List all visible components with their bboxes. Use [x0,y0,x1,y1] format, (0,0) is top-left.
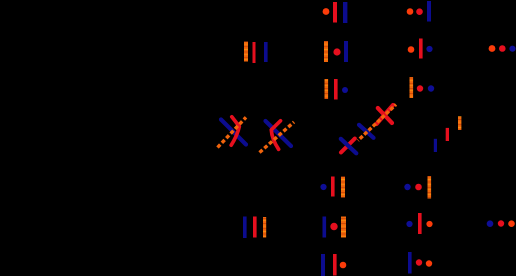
blue bar A3 (top group 1) [343,2,347,23]
blue bar W1 (row 7 group 2) [408,252,412,274]
red dot F2 (row 2 dot row) [499,45,506,52]
red bracket stroke J2 (cluster 2) [271,121,280,150]
red tick O2 (staircase) [446,128,449,141]
orange dashed diagonal J3 (cluster 2) [260,122,295,153]
blue diagonal stroke J1 (cluster 2) [266,121,292,146]
red bar P2 (row 5 group 1) [331,177,335,197]
orange dashed tick O3 (staircase) [458,116,461,130]
blue dot Q1 (row 5 group 2) [404,184,410,190]
orange dashed bar Q3 (row 5 group 2) [428,176,432,199]
red dot B2 (top group 2) [416,8,423,15]
red dot W2 (row 7 group 2) [416,259,422,265]
orange dashed bar S3 (row 6 group 2) [341,217,346,238]
blue dot H3 (row 3 group 2) [428,85,434,91]
red dot H2 (row 3 group 2) [417,85,423,91]
blue dot T1 (row 6 group 3) [406,221,412,227]
red dot D2 (row 2 group 2) [333,48,340,55]
orange dot U3 (row 6 dot row) [508,220,515,227]
blue bar B3 (top group 2) [427,1,431,22]
blue tick O1 (staircase) [434,139,437,152]
blue diagonal stroke L1 (cross 2) [359,125,374,138]
red bracket stroke I2 (cluster 1) [231,117,239,145]
red dot Q2 (row 5 group 2) [415,184,422,191]
blue bar V1 (row 7 group 1) [321,254,325,276]
orange dashed diagonal N (long line) [358,105,396,141]
blue dot P1 (row 5 group 1) [320,184,326,190]
red bar A2 (top group 1) [333,2,337,23]
red X stroke K1 (cross 1) [341,139,355,153]
orange dashed bar C1 (row 2 group 1) [244,42,248,62]
blue bar R1 (row 6 group 1) [243,217,247,239]
blue bar S1 (row 6 group 2) [323,217,327,238]
blue dot G3 (row 3 group 1) [342,87,348,93]
orange dashed bar G1 (row 3 group 1) [325,79,329,99]
orange dot F1 (row 2 dot row) [489,45,496,52]
red bar C2 (row 2 group 1) [253,42,256,63]
blue dot F3 (row 2 dot row) [509,46,515,52]
red bar V2 (row 7 group 1) [333,254,337,276]
orange dot W3 (row 7 group 2) [426,260,432,266]
orange dot B1 (top group 2) [407,8,414,15]
red dot S2 (row 6 group 2) [330,223,337,230]
blue dot E3 (row 2 group 3) [426,46,432,52]
red bar T2 (row 6 group 3) [418,213,422,234]
orange dot T3 (row 6 group 3) [426,221,432,227]
orange dashed bar R3 (row 6 group 1) [263,217,266,238]
red bar E2 (row 2 group 3) [419,39,423,59]
orange dashed bar H1 (row 3 group 2) [410,77,414,98]
orange dot E1 (row 2 group 3) [408,46,415,53]
blue dot U1 (row 6 dot row) [487,220,494,227]
blue bar C3 (row 2 group 1) [264,42,268,62]
orange dashed bar D1 (row 2 group 2) [324,41,328,62]
red bar G2 (row 3 group 1) [334,79,338,100]
orange dashed diagonal I3 (cluster 1) [218,117,247,147]
red X stroke M2 (cross 3) [377,105,394,124]
red bar R2 (row 6 group 1) [253,217,257,238]
blue diagonal stroke I1 (cluster 1) [221,120,246,145]
blue bar D3 (row 2 group 2) [344,41,348,62]
red dot U2 (row 6 dot row) [498,220,504,226]
orange dashed bar P3 (row 5 group 1) [341,177,345,198]
orange dot V3 (row 7 group 1) [340,262,347,269]
blue X stroke K2 (cross 1) [341,139,357,154]
red X stroke M1 (cross 3) [378,108,392,123]
orange dot A1 (top group 1) [323,8,330,15]
